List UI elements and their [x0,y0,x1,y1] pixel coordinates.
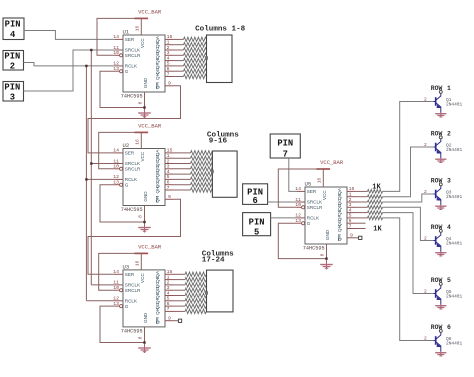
svg-text:2N4401: 2N4401 [446,147,463,153]
svg-text:QH: QH [337,225,342,232]
wire U5 QG stub [355,222,366,224]
svg-text:4: 4 [167,169,170,175]
U3 pin 15 QA [165,273,173,275]
wire 1K resistor to Q6 base [383,218,434,341]
transistor Q3 2N4401 [433,183,442,205]
svg-text:3: 3 [167,50,170,56]
svg-text:16: 16 [135,260,141,266]
svg-text:5: 5 [167,296,170,302]
svg-text:1K: 1K [373,226,382,234]
wire U5 QA to resistor [355,190,368,192]
resistor 1K (row 5) [368,211,383,215]
resistor R (column 1-87) [184,69,207,74]
connector box Columns 1-8 [207,35,233,83]
svg-text:15: 15 [167,148,173,154]
U2 pin 11 SRCLK [115,163,123,165]
U2 pin 1 QB [165,157,173,159]
U1 pin 1 QB [165,44,173,46]
U3 pin 16 VCC [140,253,142,270]
svg-text:16: 16 [135,139,141,145]
U5 pin 3 QD [347,206,355,208]
svg-text:SRCLK: SRCLK [125,161,141,166]
svg-text:2: 2 [424,336,427,342]
svg-text:2: 2 [349,197,352,203]
ground symbol below Q4 [435,252,446,257]
wire U2 G to GND net [100,185,144,222]
svg-text:3: 3 [167,285,170,291]
svg-text:2: 2 [167,280,170,286]
wire RCLK bus tap to U2 [86,178,115,180]
wire RCLK bus to U3 RCLK [86,300,115,302]
transistor Q1 2N4401 [433,90,442,112]
U2 pin 12 RCLK [115,178,123,180]
svg-text:6: 6 [167,301,170,307]
U2 pin 16 VCC [140,132,142,148]
ground symbol below U5 [320,259,333,270]
svg-text:2N4401: 2N4401 [446,340,463,346]
svg-text:SRCLK: SRCLK [125,48,141,53]
wire 1K resistor to Q5 base [383,213,434,294]
wire SRCLK bus tap to U2 [91,163,115,165]
svg-text:RCLK: RCLK [125,64,138,69]
wire U out to resistor (col 9-166) [173,178,191,180]
resistor 1K (row 4) [368,205,383,209]
resistor R (column 1-84) [184,53,207,58]
U1 pin 15 QA [165,38,173,40]
svg-text:1: 1 [167,40,170,46]
svg-text:2N4401: 2N4401 [446,240,463,246]
svg-text:SER: SER [125,151,135,156]
svg-text:G: G [125,69,129,74]
resistor R (column 1-83) [184,48,207,53]
pin mark on Columns 9-16 connector [211,170,214,174]
svg-text:GND: GND [143,191,148,202]
junction U3 GND net [143,341,145,343]
svg-text:2: 2 [424,189,427,195]
resistor R (column 1-81) [184,37,207,42]
U5 pin 2 QC [347,201,355,203]
junction U5 GND net [325,257,327,259]
svg-text:4: 4 [349,207,352,213]
U2 pin 7 QH [165,189,173,191]
svg-text:ROW: ROW [431,224,443,231]
wire VCC_BAR to U1 SRCLR [97,18,141,55]
wire SRCLK bus vertical [90,50,92,285]
svg-text:2: 2 [10,61,15,71]
transistor Q4 2N4401 [433,229,442,251]
svg-text:RCLK: RCLK [125,177,138,182]
svg-text:QH: QH [155,73,160,80]
wire PIN2 to RCLK bus [24,63,116,66]
resistor R (column 17-246) [185,299,206,304]
svg-text:15: 15 [167,34,173,40]
svg-text:5: 5 [349,213,352,219]
U3 pin 6 QG [165,305,173,307]
svg-text:G: G [125,304,129,309]
resistor R (column 9-164) [191,167,213,172]
U1 pin 2 QC [165,49,173,51]
junction RCLK bus at U1 [85,65,87,67]
svg-text:G: G [125,182,129,187]
wire U out to resistor (col 1-88) [173,76,184,78]
U2 pin 8 GND [144,206,146,223]
resistor R (column 17-244) [185,288,206,293]
U2 pin 6 QG [165,184,173,186]
wire U5 QC to resistor [355,201,368,203]
svg-text:U5: U5 [305,180,312,187]
U5 pin 14 SER [297,190,305,192]
U2 pin 14 SER [115,152,123,154]
svg-text:1K: 1K [372,183,381,191]
junction U2 GND net [143,221,145,223]
svg-text:2: 2 [424,142,427,148]
svg-text:QH: QH [155,308,160,315]
U1 pin 8 GND [144,92,146,108]
connector box Columns 9-16 [212,151,237,197]
svg-text:2N4401: 2N4401 [446,101,463,107]
svg-text:ROW: ROW [431,277,443,284]
svg-text:7: 7 [167,185,170,191]
wire 1K resistor to Q3 base [383,194,434,202]
svg-text:3: 3 [10,92,15,102]
U5 pin 10 SRCLR [297,206,301,208]
svg-text:QH: QH [155,187,160,194]
wire PIN6 to U5 SRCLK [268,201,297,203]
U2 pin 4 QE [165,173,173,175]
wire U5 QE to resistor [355,212,368,214]
svg-text:5: 5 [167,61,170,67]
wire U out to resistor (col 9-168) [173,189,191,191]
svg-text:2: 2 [424,236,427,242]
U2 pin 15 QA [165,152,173,154]
wire PIN5 to U5 RCLK [271,217,297,219]
svg-text:9: 9 [168,80,171,86]
svg-text:74HC595: 74HC595 [121,329,143,335]
U5 pin 4 QE [347,212,355,214]
U3 pin 5 QF [165,300,173,302]
U3 pin 4 QE [165,295,173,297]
svg-text:SRCLR: SRCLR [307,205,323,210]
U1 pin 13 G [115,70,119,72]
U3 pin 12 RCLK [115,300,123,302]
svg-text:PIN: PIN [5,20,21,30]
U1 pin 16 VCC [140,18,142,35]
wire U out to resistor (col 9-163) [173,163,191,165]
svg-text:ROW: ROW [431,324,443,331]
svg-text:8: 8 [138,336,144,339]
svg-text:VCC: VCC [140,151,145,161]
svg-text:RCLK: RCLK [125,299,138,304]
no-connect marker on U5 pin 9 [355,237,359,239]
resistor R (column 9-166) [191,177,213,182]
svg-text:7: 7 [349,223,352,229]
U5 pin 5 QF [347,217,355,219]
svg-text:U1: U1 [123,28,130,35]
svg-text:1: 1 [349,192,352,198]
svg-text:9: 9 [168,194,171,200]
svg-text:6: 6 [349,218,352,224]
resistor R (column 17-242) [185,277,206,282]
wire U out to resistor (col 17-246) [173,300,185,302]
U3 pin 13 G [115,305,119,307]
svg-text:2N4401: 2N4401 [446,194,463,200]
wire U5 QH stub [355,228,366,230]
svg-text:RCLK: RCLK [307,216,320,221]
svg-text:U2: U2 [123,142,130,149]
connector box PIN 6 [243,184,268,206]
resistor 1K (row 3) [368,200,383,204]
svg-text:9: 9 [350,232,353,238]
connector box PIN 2 [3,51,24,72]
U5 pin 11 SRCLK [297,201,305,203]
wire U1 G to GND net [100,71,144,107]
shift register U3 74HC595 body [121,263,165,334]
svg-text:17-24: 17-24 [202,256,225,264]
resistor 1K (row 6) [368,216,383,220]
svg-text:PIN: PIN [4,52,20,62]
transistor Q2 2N4401 [433,136,442,158]
wire U out to resistor (col 9-164) [173,168,191,170]
U3 pin 8 GND [144,327,146,343]
junction SRCLK bus at U1 [90,49,92,51]
svg-text:74HC595: 74HC595 [303,246,325,252]
junction RCLK bus at U2 [85,178,87,180]
svg-text:QH: QH [155,82,160,89]
svg-text:3: 3 [447,177,451,184]
wire U out to resistor (col 9-162) [173,157,191,159]
svg-text:PIN: PIN [277,139,293,149]
U5 pin 1 QB [347,196,355,198]
U2 pin 9 QH' [165,198,173,200]
svg-text:8: 8 [138,101,144,104]
svg-text:SRCLR: SRCLR [125,167,141,172]
svg-text:2: 2 [424,289,427,295]
resistor R (column 17-243) [185,283,206,288]
U1 pin 14 SER [115,38,123,40]
wire U3 G to GND net [100,306,144,342]
pin mark on Columns 17-24 connector [205,291,208,295]
U5 pin 13 G [297,222,301,224]
svg-text:15: 15 [167,269,173,275]
power symbol VCC_BAR above U3 [135,244,162,254]
wire PIN4 to U1 SER [24,31,115,40]
svg-text:SER: SER [307,189,317,194]
svg-text:5: 5 [447,277,451,284]
junction U1 GND net [143,106,145,108]
shift register U1 74HC595 body [121,28,165,99]
resistor R (column 1-85) [184,58,207,63]
resistor 1K (row 2) [368,195,383,199]
svg-text:6: 6 [252,196,257,206]
wire RCLK bus vertical [85,66,87,301]
svg-text:4: 4 [167,55,170,61]
wire U out to resistor (col 1-84) [173,54,184,56]
svg-text:QH: QH [155,196,160,203]
wire U out to resistor (col 1-81) [173,38,184,40]
resistor R (column 17-245) [185,293,206,298]
U3 pin 11 SRCLK [115,284,123,286]
wire SRCLK bus to U3 SRCLK [91,284,115,286]
transistor Q5 2N4401 [433,282,442,304]
svg-text:7: 7 [167,71,170,77]
U1 pin 6 QG [165,70,173,72]
resistor R (column 17-248) [185,309,206,314]
svg-text:16: 16 [135,26,141,32]
svg-text:2: 2 [167,158,170,164]
wire U out to resistor (col 17-243) [173,284,185,286]
wire U out to resistor (col 17-241) [173,273,185,275]
wire U out to resistor (col 17-244) [173,289,185,291]
wire VCC_BAR to U2 SRCLR [99,132,142,168]
resistor R (column 1-82) [184,42,207,47]
wire 1K resistor to Q4 base [383,207,434,240]
svg-text:8: 8 [138,215,144,218]
svg-text:3: 3 [167,164,170,170]
svg-text:2: 2 [447,130,451,137]
U3 pin 10 SRCLR [115,289,119,291]
svg-text:SRCLK: SRCLK [307,200,323,205]
U5 pin 6 QG [347,222,355,224]
svg-text:U3: U3 [123,263,130,270]
svg-text:VCC_BAR: VCC_BAR [138,9,162,16]
svg-text:VCC: VCC [140,273,145,283]
wire U2 QH' to U3 SER (cascade) [88,199,181,274]
U3 pin 9 QH' [165,320,173,322]
svg-text:QH: QH [337,234,342,241]
U5 pin 12 RCLK [297,217,305,219]
U5 pin 9 QH' [347,237,355,239]
ground symbol below Q6 [435,352,446,357]
svg-text:6: 6 [167,180,170,186]
svg-text:VCC_BAR: VCC_BAR [138,123,162,130]
resistor R (column 17-247) [185,304,206,309]
U2 pin 10 SRCLR [115,168,119,170]
U1 pin 9 QH' [165,85,173,87]
power symbol VCC_BAR above U5 [317,159,344,169]
U1 pin 10 SRCLR [115,54,119,56]
resistor 1K (row 1) [368,190,383,194]
wire U out to resistor (col 9-161) [173,152,191,154]
U5 pin 8 GND [326,244,328,259]
svg-text:SRCLR: SRCLR [125,288,141,293]
U3 pin 2 QC [165,284,173,286]
svg-text:2N4401: 2N4401 [446,293,463,299]
power symbol VCC_BAR above U1 [135,9,162,19]
svg-text:ROW: ROW [431,85,443,92]
wire U out to resistor (col 1-83) [173,49,184,51]
svg-text:1: 1 [167,274,170,280]
svg-text:GND: GND [143,312,148,323]
svg-text:ROW: ROW [431,177,443,184]
svg-text:6: 6 [447,324,451,331]
svg-text:1: 1 [447,85,451,92]
U2 pin 2 QC [165,163,173,165]
resistor R (column 9-167) [191,182,213,187]
shift register U2 74HC595 body [121,142,165,213]
ground symbol below U3 [138,343,151,354]
wire 1K resistor to Q2 base [383,147,434,197]
svg-text:74HC595: 74HC595 [121,207,143,213]
wire U5 QD to resistor [355,206,368,208]
svg-text:15: 15 [349,186,355,192]
svg-text:6: 6 [167,66,170,72]
svg-text:QH: QH [155,317,160,324]
wire PIN7 to U5 SER [289,158,297,191]
wire U out to resistor (col 1-85) [173,60,184,62]
wire U5 QF to resistor [355,217,368,219]
resistor R (column 9-162) [191,156,213,161]
svg-text:GND: GND [143,77,148,88]
svg-text:8: 8 [320,253,326,256]
connector box Columns 17-24 [207,270,234,312]
wire U out to resistor (col 1-86) [173,65,184,67]
U1 pin 7 QH [165,76,173,78]
transistor Q6 2N4401 [433,329,442,351]
U1 pin 5 QF [165,65,173,67]
svg-text:2: 2 [424,97,427,103]
U5 pin 7 QH [347,228,355,230]
svg-text:GND: GND [325,229,330,240]
resistor R (column 9-165) [191,172,213,177]
svg-text:9: 9 [168,315,171,321]
U1 pin 4 QE [165,60,173,62]
wire U out to resistor (col 9-167) [173,184,191,186]
resistor R (column 9-161) [191,151,213,156]
svg-text:VCC_BAR: VCC_BAR [320,159,344,166]
wire U out to resistor (col 17-242) [173,279,185,281]
svg-text:5: 5 [254,227,259,237]
svg-text:Columns 1-8: Columns 1-8 [195,26,246,34]
wire U1 QH' to U2 SER (cascade) [88,86,181,153]
U3 pin 1 QB [165,279,173,281]
wire U out to resistor (col 1-87) [173,70,184,72]
ground symbol below Q5 [435,305,446,310]
U2 pin 3 QD [165,168,173,170]
resistor R (column 1-88) [184,74,207,79]
wire U out to resistor (col 17-247) [173,305,185,307]
svg-text:SRCLR: SRCLR [125,53,141,58]
U3 pin 7 QH [165,310,173,312]
connector box PIN 4 [3,18,24,40]
svg-text:G: G [307,221,311,226]
svg-text:4: 4 [447,224,451,231]
wire U out to resistor (col 17-248) [173,310,185,312]
no-connect marker on U3 pin 9 [173,320,178,322]
svg-text:SER: SER [125,272,135,277]
junction SRCLK bus at U2 [90,162,92,164]
wire VCC_BAR to U5 SRCLR [278,169,323,207]
svg-text:4: 4 [167,290,170,296]
svg-text:16: 16 [317,178,323,184]
U3 pin 14 SER [115,273,123,275]
wire 1K resistor to Q1 base [383,102,434,192]
connector box PIN 3 [3,82,24,103]
svg-text:4: 4 [10,30,16,40]
wire VCC_BAR to U3 SRCLR [99,253,142,290]
resistor R (column 9-168) [191,188,213,193]
connector box PIN 5 [243,213,271,238]
svg-text:VCC_BAR: VCC_BAR [138,244,162,251]
U2 pin 13 G [115,184,119,186]
connector box PIN 7 [270,134,300,159]
ground symbol below Q3 [435,205,446,210]
U5 pin 16 VCC [322,169,324,187]
U1 pin 11 SRCLK [115,49,123,51]
pin mark on Columns 1-8 connector [205,56,208,60]
svg-text:SER: SER [125,37,135,42]
power symbol VCC_BAR above U2 [135,123,162,133]
svg-text:2: 2 [167,45,170,51]
